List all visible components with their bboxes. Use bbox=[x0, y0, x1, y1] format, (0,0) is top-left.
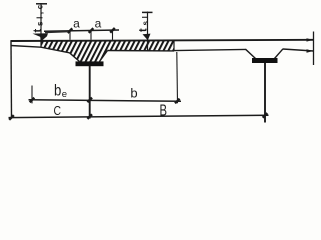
tick a right bbox=[110, 28, 115, 33]
left rib bottom flange (solid) bbox=[76, 61, 104, 66]
b right extension line bbox=[176, 52, 179, 103]
tick b_e left bbox=[30, 98, 35, 103]
slab bottom edge right of right rib bbox=[283, 49, 314, 51]
right rib web right side bbox=[275, 49, 284, 59]
hatched cut region of slab and left rib web bbox=[41, 41, 174, 62]
tick C left bbox=[9, 115, 14, 120]
a extension line left bbox=[69, 31, 71, 40]
t_sl arrow to slab bbox=[143, 34, 151, 41]
tick C/B middle bbox=[87, 114, 92, 119]
t_sl,c arrow to slab bbox=[33, 33, 49, 41]
tick a left bbox=[68, 28, 73, 33]
slab bottom edge left of rib (tapering) bbox=[11, 46, 70, 53]
slab bottom edge right of left rib (cut part) bbox=[108, 50, 175, 52]
label t_sl (rotated) bbox=[138, 14, 151, 32]
left rib web left side bbox=[70, 53, 80, 62]
label t_sl,c (rotated) bbox=[32, 2, 45, 32]
tick B right bbox=[263, 113, 268, 118]
dimension t_sl,c vertical line bbox=[40, 3, 42, 47]
svg-text:a: a bbox=[95, 17, 102, 31]
a extension line middle bbox=[90, 30, 92, 39]
heavy lead-in stroke at left of a dimension line bbox=[45, 31, 67, 34]
left rib centerline bbox=[89, 66, 91, 119]
svg-text:B: B bbox=[160, 103, 168, 120]
tick b_e/b middle bbox=[87, 98, 92, 103]
left edge line / C extension line bbox=[10, 41, 13, 118]
svg-text:e: e bbox=[62, 89, 67, 100]
b_e left extension line bbox=[31, 86, 33, 104]
dimension line C / B bbox=[9, 115, 269, 117]
left rib web right side bbox=[100, 51, 108, 62]
tick a middle bbox=[89, 28, 94, 33]
a extension line right bbox=[112, 30, 114, 40]
svg-text:b: b bbox=[130, 85, 137, 100]
arrowhead at right end on top surface bbox=[307, 38, 314, 41]
svg-text:a: a bbox=[73, 17, 80, 31]
dimension line a,a bbox=[44, 30, 119, 31]
t_sl top tick bbox=[142, 11, 153, 13]
slab top surface line bbox=[11, 40, 314, 41]
dimension t_sl vertical line bbox=[147, 12, 149, 52]
arrowhead at right end on bottom surface bbox=[307, 49, 314, 52]
tick b right bbox=[175, 99, 180, 104]
right end cut line bbox=[313, 32, 315, 66]
right rib web left side bbox=[246, 49, 256, 58]
slab bottom edge right portion (elevation) bbox=[174, 49, 246, 50]
right rib bottom flange (solid) bbox=[252, 58, 278, 63]
svg-text:C: C bbox=[54, 104, 62, 118]
end of cut region vertical edge bbox=[173, 41, 175, 52]
right rib centerline bbox=[264, 63, 266, 123]
dimension line b_e / b bbox=[29, 100, 182, 101]
svg-text:b: b bbox=[54, 83, 61, 100]
t_sl,c top tick bbox=[36, 3, 47, 5]
